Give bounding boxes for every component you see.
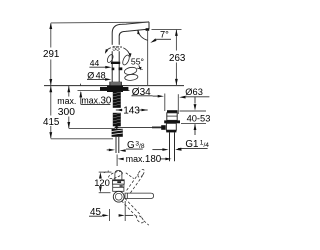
415 bottom reference line [51, 138, 113, 140]
svg-text:55°: 55° [131, 57, 144, 67]
plan lever dashed down position [121, 198, 148, 225]
deck underside line [78, 90, 130, 92]
deck section dark band [100, 87, 128, 91]
label 55deg backing [111, 45, 124, 51]
body base [110, 82, 122, 85]
threaded shank segment 2 [113, 113, 121, 127]
dim 291 arrows [49, 23, 52, 29]
55deg arc 1 left arrow [105, 48, 111, 53]
plan lever bar [125, 193, 154, 198]
55deg 2 leader arrow [139, 65, 140, 69]
waste mid body [166, 123, 176, 130]
spout bend and horizontal tube [112, 22, 149, 44]
body joint dark band [111, 62, 120, 64]
291 extension line (spout top) [51, 21, 148, 24]
dim 120 [99, 171, 112, 173]
outlet centerline [147, 31, 149, 85]
plan dashed lever-up pill [108, 170, 124, 180]
dim 44 leader [89, 66, 106, 68]
svg-text:max.: max. [57, 96, 76, 106]
max300 bottom reference line [69, 128, 115, 130]
tailpipe [169, 132, 171, 161]
dim O48 leader [87, 78, 106, 80]
rod ball end [114, 126, 119, 129]
front lever upper right ellipse [121, 54, 130, 66]
dim 415 line [50, 86, 52, 138]
svg-text:55°: 55° [112, 44, 123, 52]
tube thread arrow left [107, 149, 110, 151]
dim 45 [89, 215, 102, 217]
dim 263 arrows [175, 30, 178, 36]
deck tick [80, 84, 82, 86]
body column [111, 64, 113, 82]
dim max300 line [68, 86, 70, 128]
tailpipe thread arrow left [152, 149, 162, 151]
dim 291 line [50, 23, 52, 85]
svg-text:7°: 7° [160, 29, 169, 39]
clamp bottom ext line [181, 123, 206, 125]
waste ext line right [177, 94, 179, 114]
mounting nut below deck [107, 86, 123, 93]
aerator [146, 28, 150, 31]
plan spout [115, 170, 122, 179]
svg-text:120: 120 [94, 177, 110, 188]
waste seal bar [164, 120, 180, 123]
svg-text:40-53: 40-53 [187, 114, 211, 124]
plan body ring outer [113, 191, 124, 202]
G3/8 arrow to tube [120, 149, 126, 152]
plan cartridge box [113, 180, 125, 184]
dim G1 1/4 leader [178, 147, 208, 149]
front lever horizontal ellipse [124, 66, 138, 75]
svg-text:263: 263 [169, 53, 186, 64]
pop-up waste flange cap [167, 110, 178, 113]
dim max180 [116, 155, 118, 167]
plan lever dashed up position [127, 168, 146, 193]
svg-text:max.180: max.180 [126, 154, 162, 165]
dim 7deg leader [156, 38, 171, 40]
plan body ring inner [115, 193, 122, 200]
lever shaft dashes [137, 68, 142, 69]
front lever left knob ellipse [106, 54, 114, 64]
flange top ext line [180, 110, 207, 112]
threaded shank segment 1 [113, 92, 121, 108]
svg-text:Ø63: Ø63 [185, 87, 203, 97]
deck line [44, 85, 184, 87]
G3/8 connection tube [115, 137, 117, 153]
pop-up rod horizontal [117, 126, 164, 128]
dim 143 [116, 109, 123, 111]
dim max300 arrows [67, 86, 70, 92]
lower nut [112, 129, 123, 137]
dim 415 arrows [49, 86, 52, 92]
dim G3/8 underline [126, 148, 143, 150]
dim 263 line [175, 30, 177, 85]
svg-text:Ø48: Ø48 [87, 70, 105, 80]
plan hinge dark detail [117, 181, 121, 183]
svg-text:45: 45 [90, 207, 101, 218]
dim O34 underline and arrow [131, 95, 152, 97]
svg-text:291: 291 [43, 49, 59, 60]
svg-text:Ø34: Ø34 [132, 87, 151, 98]
263 extension line (outlet) [152, 28, 182, 30]
svg-text:44: 44 [90, 58, 100, 68]
svg-text:143: 143 [123, 105, 140, 116]
flange body [167, 113, 177, 121]
rod clamp block [161, 125, 166, 130]
svg-text:max.30: max.30 [81, 96, 112, 107]
55deg arc 1 right arrow [123, 48, 130, 56]
shank hatch lines [113, 92, 121, 124]
svg-text:300: 300 [58, 107, 75, 118]
dim max30 arrow [80, 92, 82, 104]
dim O63 underline and arrow [184, 96, 210, 98]
front lever lower ellipse [124, 74, 138, 81]
7deg angle arc [138, 30, 148, 40]
dim 40-53 [194, 97, 196, 104]
svg-text:415: 415 [43, 117, 60, 128]
spout riser [111, 44, 113, 62]
max30 underline [81, 103, 111, 105]
waste lower dark band [166, 130, 176, 132]
waste ext line left [164, 94, 166, 112]
lever joint dark [119, 67, 123, 70]
spout tip end [148, 22, 150, 29]
